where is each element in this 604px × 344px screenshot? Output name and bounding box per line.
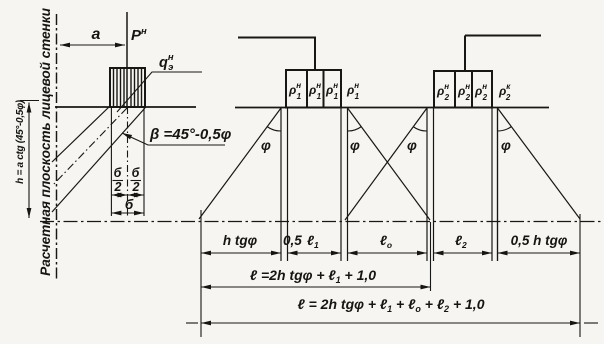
- angle arc 4: [498, 127, 512, 132]
- dimension a: [60, 44, 125, 46]
- svg-text:φ: φ: [407, 137, 417, 153]
- verticals below ground: group1 left margin and edge: [280, 108, 282, 262]
- svg-text:h = a ctg (45°-0,5φ): h = a ctg (45°-0,5φ): [15, 99, 26, 184]
- svg-text:φ: φ: [350, 137, 360, 153]
- svg-text:2: 2: [114, 180, 122, 194]
- svg-text:ℓ =2h tgφ + ℓ1 + 1,0: ℓ =2h tgφ + ℓ1 + 1,0: [250, 267, 376, 285]
- svg-text:0,5: 0,5: [283, 233, 302, 248]
- svg-text:б: б: [114, 166, 123, 180]
- dimension line 1: l2: [434, 252, 493, 254]
- ground surface (left): [55, 106, 196, 108]
- svg-text:ℓo: ℓo: [380, 233, 392, 250]
- svg-text:qнэ: qнэ: [159, 52, 174, 73]
- svg-text:б: б: [132, 166, 141, 180]
- wall face plane (dash-dot vertical): [56, 14, 58, 280]
- svg-text:б: б: [125, 197, 134, 212]
- leader of q (horizontal + diagonal): [117, 72, 202, 112]
- svg-text:Расчетная плоскость лицевой ст: Расчетная плоскость лицевой стенки: [38, 7, 53, 275]
- side dash right of dim3: [584, 322, 598, 324]
- verticals below ground: group2 right edge and margin: [491, 108, 493, 262]
- dimension line 1: h tgφ: [201, 252, 281, 254]
- svg-text:φ: φ: [501, 137, 511, 153]
- extension line right edge of block: [143, 107, 145, 216]
- svg-text:ρн1: ρн1: [325, 81, 339, 101]
- main horizontal axis (dash-dot): [40, 221, 602, 223]
- tick at top of h dimension: [20, 100, 39, 102]
- dimension line 3: [201, 322, 580, 324]
- svg-text:ρк2: ρк2: [498, 82, 511, 102]
- dimension line b: [111, 212, 144, 214]
- extension line dim2 right end: [430, 222, 432, 291]
- fraction b/2 (right): [132, 166, 141, 194]
- spread line D2 (centre, dash-dot): [52, 108, 127, 186]
- load axis below ground (dash-dot): [127, 107, 129, 216]
- wheel boxes group 1: [286, 70, 307, 108]
- labels p2: [436, 82, 511, 102]
- spread line L2: [348, 108, 431, 220]
- extension line right end: [579, 214, 581, 337]
- spread line L4: [498, 108, 581, 219]
- ground surface (right): [235, 107, 549, 109]
- svg-text:ℓ2: ℓ2: [455, 233, 467, 250]
- load axis above ground: [126, 12, 128, 107]
- svg-text:ℓ = 2h tgφ + ℓ1 + ℓo + ℓ2 + 1: ℓ = 2h tgφ + ℓ1 + ℓo + ℓ2 + 1,0: [298, 296, 485, 314]
- rail line group 2: [465, 36, 541, 72]
- svg-text:ρн2: ρн2: [457, 82, 471, 102]
- dimension line 1: 0,5 h tgφ: [498, 252, 581, 254]
- rail line group 1: [238, 38, 315, 71]
- svg-text:h tgφ: h tgφ: [223, 233, 258, 248]
- svg-text:φ: φ: [261, 137, 271, 153]
- svg-text:β =45°-0,5φ: β =45°-0,5φ: [149, 126, 232, 143]
- labels p1: [288, 81, 360, 101]
- extension line left edge of block: [110, 107, 112, 216]
- extension line left end: [200, 210, 202, 337]
- svg-text:2: 2: [132, 180, 140, 194]
- verticals below ground: group1 right edge and margin: [340, 108, 342, 262]
- load block (hatched): [110, 68, 145, 107]
- svg-text:ρн1: ρн1: [308, 81, 322, 101]
- svg-text:a: a: [92, 26, 101, 43]
- svg-text:0,5 h tgφ: 0,5 h tgφ: [511, 233, 568, 248]
- fraction b/2 (left): [114, 166, 123, 194]
- dimension line 1: l1: [288, 252, 342, 254]
- dimension line b/2|b/2: [111, 194, 127, 196]
- wheel boxes group 2: [434, 71, 455, 108]
- svg-text:ρн2: ρн2: [474, 82, 488, 102]
- spread line L3: [345, 108, 427, 220]
- side dash left of dim3: [186, 322, 198, 324]
- svg-text:Pн: Pн: [131, 26, 147, 44]
- verticals below ground: group2 left margin and edge: [426, 108, 428, 262]
- block hatching: [114, 68, 142, 107]
- svg-text:ℓ1: ℓ1: [307, 233, 319, 250]
- spread line D1: [52, 106, 110, 162]
- angle arc 2: [348, 127, 362, 132]
- spread line L1: [199, 108, 281, 219]
- dimension line 2: [201, 286, 431, 288]
- labels of dimension line 1: [223, 233, 568, 250]
- dimension line 1: l0: [348, 252, 428, 254]
- leader of β with arrow: [122, 133, 225, 145]
- dimension h (vertical arrowed line): [28, 103, 30, 219]
- angle arc 3: [413, 127, 427, 132]
- angle arc 1: [267, 127, 281, 132]
- svg-text:ρн2: ρн2: [436, 82, 450, 102]
- svg-text:ρн1: ρн1: [346, 81, 360, 101]
- svg-text:ρн1: ρн1: [288, 81, 302, 101]
- spread line D3: [52, 108, 145, 212]
